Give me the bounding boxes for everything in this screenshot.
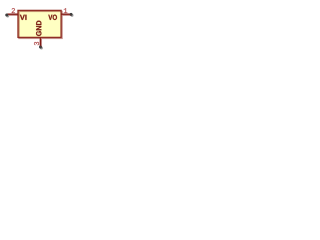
pin number 2: [12, 8, 15, 13]
voltage regulator U1 (3-pin regulator, VI/GND/VO): [0, 0, 80, 58]
pin 1 VO wire (right): [61, 13, 71, 15]
soft echo of the schematic above (antialias emulation layer): [1, 1, 81, 59]
pin 2 endpoint dot: [5, 14, 8, 17]
pin 3 endpoint dot: [39, 46, 42, 49]
pin 3 GND wire (bottom): [39, 37, 41, 46]
pin number 3: [34, 42, 39, 45]
pin name VO: [48, 15, 57, 20]
pin 2 VI wire (left): [7, 13, 18, 15]
pin number 1: [64, 8, 67, 13]
pin name GND: [36, 21, 41, 36]
pin 1 endpoint dot: [70, 13, 73, 16]
body rectangle: [18, 10, 61, 37]
pin name VI: [20, 15, 27, 20]
